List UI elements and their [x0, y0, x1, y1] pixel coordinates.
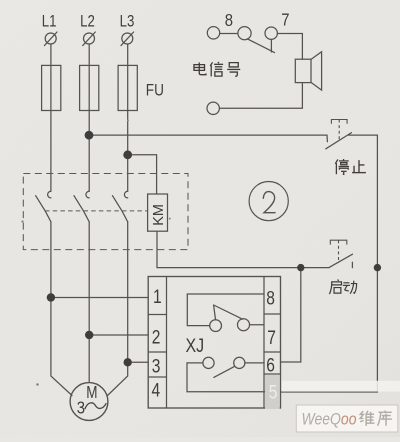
watermark 库	[378, 411, 392, 426]
wire stop to right rail	[349, 134, 378, 136]
contact KM pole3 blade	[112, 196, 127, 222]
relay contact 2 fixed circle left	[203, 357, 214, 368]
speaker body	[295, 59, 311, 82]
junction L3/coil	[123, 150, 132, 159]
start switch right tick	[351, 262, 353, 267]
right cell separator 7/6	[264, 351, 281, 353]
svg-text:8: 8	[225, 11, 233, 30]
motor M circle	[70, 383, 108, 421]
label 停止	[335, 159, 366, 174]
relay terminal numbers	[152, 286, 276, 401]
wire L2 vertical	[88, 44, 90, 191]
contact KM pole3 arc	[124, 191, 127, 198]
left cell separator 1/2	[148, 314, 166, 316]
node L3 terminal circle	[122, 33, 133, 44]
relay contact 1 fixed circle left	[210, 320, 222, 332]
wire pole3 lower	[127, 222, 129, 362]
wire contact1 to terminal 7	[250, 324, 264, 326]
wire to relay terminal 3	[128, 361, 149, 363]
wire motor lead 2	[88, 335, 90, 382]
junction motor lead3	[124, 358, 132, 366]
left cell separator 3/4	[148, 376, 166, 378]
fuse FU2	[80, 65, 99, 110]
label 2 in circle	[263, 192, 275, 213]
wire KM coil bottom to start-branch	[157, 231, 301, 267]
fuse FU1	[42, 65, 61, 110]
signal terminal circle mid	[238, 27, 251, 40]
signal terminal circle lower	[207, 102, 219, 114]
wire to relay terminal 2	[89, 334, 148, 336]
coil KM box	[148, 194, 168, 231]
stop switch left tick	[326, 135, 328, 142]
svg-text:L2: L2	[80, 12, 95, 31]
contact KM pole1 blade	[36, 196, 51, 222]
svg-text:7: 7	[281, 11, 289, 30]
mechanical linkage dashed line	[45, 210, 148, 212]
junction motor lead1	[47, 293, 55, 301]
junction motor lead2	[85, 331, 93, 339]
right cell separator 8/7	[264, 313, 281, 315]
relay XJ outer box	[148, 277, 280, 409]
paper specks	[21, 220, 23, 222]
svg-text:6: 6	[266, 354, 275, 376]
wire pole2 lower	[88, 222, 90, 335]
speaker horn	[311, 52, 322, 90]
svg-text:M: M	[86, 383, 97, 402]
svg-text:1: 1	[153, 286, 162, 308]
svg-text:FU: FU	[146, 81, 164, 100]
relay left terminal column divider	[166, 277, 168, 409]
indicator circle 2	[249, 182, 288, 221]
wire 8 to mid	[220, 33, 238, 35]
svg-text:7: 7	[267, 327, 276, 349]
pushbutton stop actuator	[331, 120, 347, 141]
wire control feed from L2	[89, 134, 327, 136]
relay contact 2 blade	[214, 366, 235, 377]
stop switch blade	[326, 133, 352, 149]
relay contact 1 pivot post	[214, 305, 216, 320]
dashed contactor boundary box	[23, 174, 188, 250]
contact KM pole1 arc	[48, 191, 51, 198]
motor tilde	[85, 403, 107, 409]
left cell separator 2/3	[148, 351, 166, 353]
svg-text:L1: L1	[42, 12, 57, 31]
signal terminal circle 8	[207, 27, 219, 39]
wire control feed from L3 to KM coil	[128, 155, 157, 194]
svg-text:2: 2	[152, 326, 161, 348]
svg-text:3: 3	[77, 398, 85, 417]
pushbutton start actuator	[330, 240, 347, 263]
relay inner contact 1 wire loop to terminal 8	[187, 294, 264, 326]
label 启动	[329, 280, 356, 295]
node L1 terminal circle	[45, 33, 56, 44]
svg-text:5: 5	[269, 381, 278, 403]
svg-text:L3: L3	[120, 12, 135, 31]
terminal 5 grey cell	[265, 375, 280, 409]
wire 7 to speaker	[277, 34, 302, 60]
svg-text:WeeQoo: WeeQoo	[302, 410, 357, 429]
junction start right	[374, 264, 381, 271]
svg-text:8: 8	[266, 287, 275, 309]
relay inner contact 2 wire loop to terminal 5	[187, 363, 265, 392]
wire right rail down to terminal 5	[281, 135, 378, 392]
junction start left	[297, 264, 304, 271]
start switch blade	[329, 254, 353, 267]
fuse FU3	[118, 65, 137, 110]
contact KM pole2 blade	[74, 196, 89, 222]
wire pole1 lower	[50, 222, 52, 298]
watermark box	[296, 405, 398, 432]
relay right terminal column divider	[263, 277, 265, 409]
signal fixed stub under 7	[270, 39, 272, 52]
svg-text:KM: KM	[151, 204, 167, 226]
wire speaker to lower terminal	[220, 83, 303, 109]
wire motor lead 1	[51, 298, 72, 396]
right cell separator 6/5	[264, 373, 281, 375]
svg-text:4: 4	[152, 379, 161, 401]
junction L2/control	[85, 131, 94, 140]
watermark white band	[282, 381, 400, 392]
node L2 terminal circle	[84, 33, 95, 44]
relay contact 1 fixed circle right	[238, 319, 250, 331]
signal switch blade	[247, 39, 274, 53]
svg-text:XJ: XJ	[186, 335, 205, 357]
relay contact 2 fixed circle right	[234, 357, 245, 368]
watermark 维	[360, 411, 374, 426]
label 电信号	[194, 62, 240, 76]
wire L3 vertical	[127, 44, 129, 191]
signal terminal circle 7	[265, 27, 277, 39]
wire motor lead 3	[108, 362, 128, 395]
wire start-branch down to terminal 6	[281, 268, 301, 362]
wire contact2 to terminal 6	[245, 362, 264, 364]
wire to relay terminal 1	[51, 297, 148, 299]
wire start left	[301, 267, 329, 269]
relay contact 1 blade	[214, 305, 243, 319]
svg-text:3: 3	[152, 355, 161, 377]
contact KM pole2 arc	[86, 191, 89, 198]
wire L1 vertical	[50, 44, 52, 191]
